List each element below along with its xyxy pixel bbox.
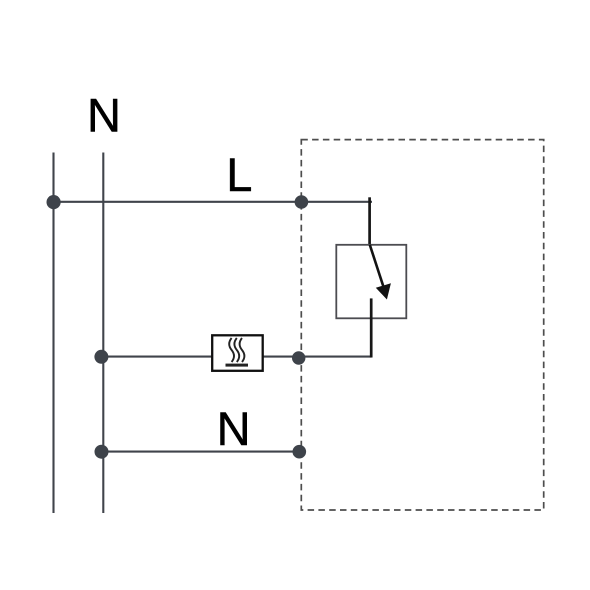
junction dot: heater wire / supply line 2: [94, 350, 108, 364]
switch S1 box: [336, 245, 406, 318]
svg-text:N: N: [87, 89, 121, 142]
dashed enclosure (device outline): [301, 140, 543, 510]
heating element E1 symbol (steam squiggles over bar): [226, 338, 249, 367]
wire: switch lower contact stub (black): [370, 298, 373, 357]
heating element E1 box: [212, 335, 263, 371]
wire: left supply vertical line 1: [52, 153, 54, 514]
net label L: [226, 148, 252, 201]
svg-text:N: N: [217, 402, 251, 455]
wire: heating element horizontal wire: [102, 356, 371, 358]
net label N (top): [87, 89, 121, 142]
net label N (bottom): [217, 402, 251, 455]
junction dot: L wire / supply line 1: [47, 195, 61, 209]
svg-text:L: L: [226, 148, 252, 201]
junction dot: L wire / enclosure edge: [295, 195, 309, 209]
wire: L horizontal wire: [54, 201, 373, 203]
junction dot: N wire / enclosure edge: [293, 445, 307, 459]
switch S1 blade with arrowhead: [370, 245, 391, 300]
wire: neutral supply vertical line 2: [102, 153, 104, 514]
junction dot: heater wire / enclosure edge: [292, 351, 305, 364]
junction dot: N wire / supply line 2: [95, 445, 109, 459]
wire: switch upper drop (black): [368, 197, 371, 245]
wire: N horizontal wire (bottom): [102, 451, 301, 453]
